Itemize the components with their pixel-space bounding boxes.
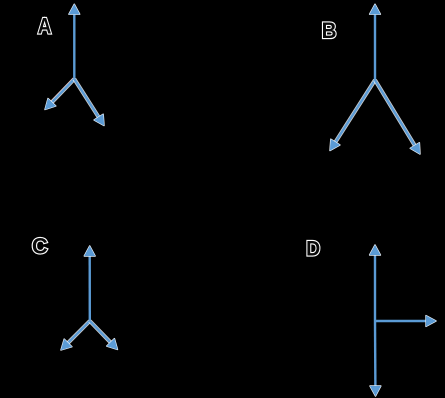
arrow C down-right — [90, 321, 118, 350]
arrow A up — [69, 4, 80, 79]
arrow B down-left — [330, 80, 375, 151]
arrow B up — [370, 4, 381, 80]
svg-text:D: D — [306, 237, 320, 261]
arrow A down-left — [45, 78, 74, 110]
svg-text:A: A — [38, 13, 52, 38]
svg-text:C: C — [32, 234, 48, 259]
arrow B down-right — [375, 80, 420, 154]
arrow A down-right — [74, 79, 104, 126]
arrow C down-left — [61, 321, 90, 350]
svg-text:B: B — [322, 18, 337, 43]
arrow D right — [375, 316, 436, 327]
arrow D up — [370, 245, 381, 321]
arrow D down — [370, 321, 381, 396]
arrow C up — [84, 246, 95, 321]
